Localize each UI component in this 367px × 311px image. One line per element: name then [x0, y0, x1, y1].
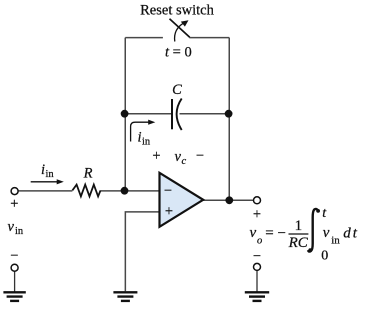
- wire top-left horizontal: [125, 37, 163, 39]
- svg-text:v: v: [323, 225, 330, 241]
- svg-text:= −: = −: [265, 226, 286, 242]
- svg-text:+: +: [165, 204, 173, 220]
- svg-text:R: R: [83, 166, 93, 182]
- current arrow i_in into capacitor: [131, 122, 151, 141]
- wire lower-left terminal to ground: [14, 271, 16, 291]
- svg-text:0: 0: [321, 249, 328, 264]
- node: junction dot right of capacitor: [225, 110, 233, 118]
- terminal: output lower: [254, 263, 261, 270]
- svg-text:−: −: [164, 183, 172, 199]
- svg-text:in: in: [46, 169, 55, 180]
- terminal: input upper: [11, 188, 18, 195]
- node: junction dot left of capacitor: [121, 110, 129, 118]
- integral sign: [308, 209, 318, 252]
- ground (output): [245, 292, 269, 301]
- terminal: output upper: [254, 197, 261, 204]
- op-amp U1: [160, 173, 204, 227]
- svg-text:Reset switch: Reset switch: [140, 3, 214, 19]
- resistor R: [72, 185, 100, 197]
- wire right vertical feedback: [228, 38, 230, 201]
- svg-text:1: 1: [295, 218, 303, 234]
- svg-text:in: in: [331, 235, 340, 247]
- wire resistor to inverting input: [101, 190, 160, 192]
- node: junction dot at inverting input: [121, 187, 129, 195]
- wire left vertical feedback: [124, 38, 126, 191]
- current arrow i_in at input: [31, 181, 60, 183]
- svg-text:i: i: [138, 130, 142, 146]
- svg-text:−: −: [10, 248, 18, 264]
- wire input to resistor: [18, 190, 72, 192]
- wire top-right horizontal: [189, 37, 229, 39]
- ground (input): [3, 292, 25, 301]
- capacitor C right plate (curved): [177, 99, 182, 131]
- wire op-amp output: [203, 199, 253, 201]
- svg-text:+: +: [10, 196, 18, 212]
- svg-text:RC: RC: [288, 235, 309, 251]
- switch actuation arrow: [175, 23, 185, 42]
- wire capacitor row right: [180, 113, 230, 115]
- svg-text:v: v: [175, 149, 182, 165]
- wire lower-right terminal to ground: [256, 270, 258, 291]
- svg-text:−: −: [253, 249, 261, 265]
- svg-text:t = 0: t = 0: [165, 45, 192, 61]
- svg-text:d: d: [343, 226, 351, 242]
- svg-text:C: C: [172, 82, 182, 98]
- svg-text:o: o: [257, 236, 262, 247]
- node: junction dot at output: [225, 196, 233, 204]
- svg-text:t: t: [322, 206, 327, 221]
- switch blade S1: [170, 19, 190, 38]
- svg-text:−: −: [196, 148, 204, 164]
- ground (op-amp noninverting): [113, 292, 137, 301]
- svg-text:t: t: [353, 226, 358, 242]
- capacitor C left plate: [171, 99, 173, 129]
- svg-text:i: i: [41, 162, 45, 178]
- svg-text:v: v: [250, 225, 257, 241]
- svg-text:+: +: [253, 207, 261, 223]
- svg-text:in: in: [15, 226, 24, 237]
- svg-text:+: +: [152, 148, 160, 164]
- svg-text:in: in: [142, 137, 151, 148]
- svg-text:c: c: [182, 156, 187, 167]
- wire noninverting input to ground: [125, 212, 159, 291]
- svg-text:v: v: [8, 219, 15, 235]
- wire capacitor row left: [125, 113, 171, 115]
- terminal: input lower: [11, 264, 18, 271]
